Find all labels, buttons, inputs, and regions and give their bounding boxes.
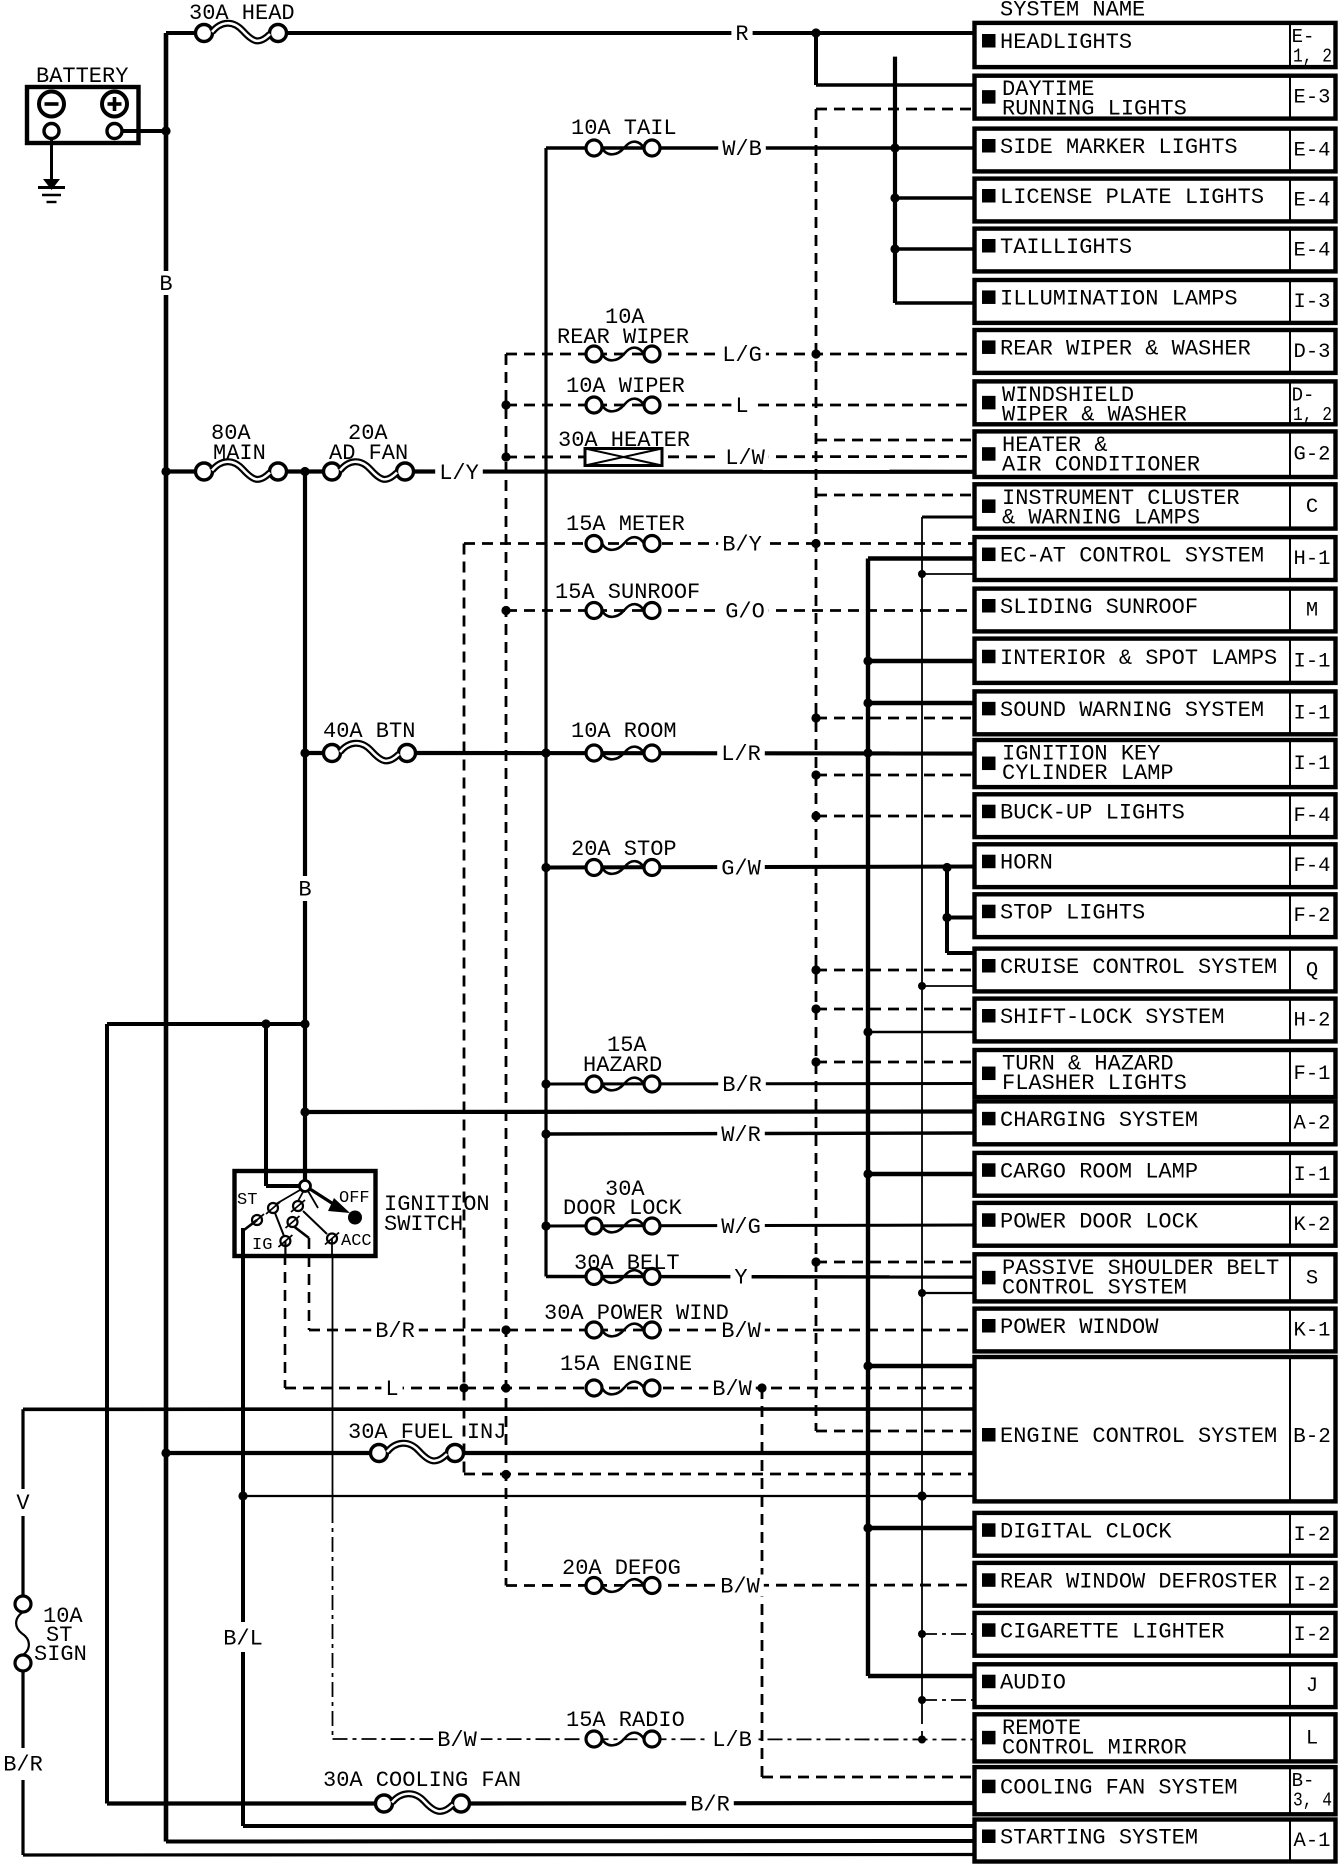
svg-text:15A METER: 15A METER bbox=[566, 512, 685, 537]
svg-text:15A RADIO: 15A RADIO bbox=[566, 1708, 685, 1733]
svg-text:HAZARD: HAZARD bbox=[583, 1053, 662, 1078]
svg-text:ENGINE CONTROL SYSTEM: ENGINE CONTROL SYSTEM bbox=[1000, 1424, 1277, 1449]
svg-text:SLIDING SUNROOF: SLIDING SUNROOF bbox=[1000, 595, 1198, 620]
svg-text:B/W: B/W bbox=[720, 1575, 760, 1600]
svg-text:SWITCH: SWITCH bbox=[384, 1212, 463, 1237]
svg-text:CIGARETTE LIGHTER: CIGARETTE LIGHTER bbox=[1000, 1619, 1224, 1644]
svg-text:E-3: E-3 bbox=[1294, 87, 1331, 110]
svg-text:L/B: L/B bbox=[712, 1728, 752, 1753]
svg-text:A-1: A-1 bbox=[1294, 1830, 1331, 1853]
svg-text:B: B bbox=[298, 878, 311, 903]
svg-text:L: L bbox=[735, 394, 748, 419]
svg-text:30A HEAD: 30A HEAD bbox=[189, 1, 295, 26]
svg-text:K-1: K-1 bbox=[1294, 1320, 1331, 1343]
svg-text:B/W: B/W bbox=[437, 1728, 477, 1753]
svg-text:L/G: L/G bbox=[722, 343, 762, 368]
svg-text:1, 2: 1, 2 bbox=[1293, 404, 1332, 426]
svg-text:W/B: W/B bbox=[722, 137, 762, 162]
svg-text:CRUISE CONTROL SYSTEM: CRUISE CONTROL SYSTEM bbox=[1000, 955, 1277, 980]
svg-text:ST: ST bbox=[237, 1191, 257, 1210]
svg-text:DOOR LOCK: DOOR LOCK bbox=[563, 1196, 683, 1221]
svg-text:& WARNING LAMPS: & WARNING LAMPS bbox=[1002, 505, 1200, 530]
svg-text:D-3: D-3 bbox=[1294, 341, 1331, 364]
svg-text:15A SUNROOF: 15A SUNROOF bbox=[555, 580, 700, 605]
svg-text:HORN: HORN bbox=[1000, 851, 1053, 876]
svg-text:CARGO ROOM LAMP: CARGO ROOM LAMP bbox=[1000, 1159, 1198, 1184]
svg-text:POWER DOOR LOCK: POWER DOOR LOCK bbox=[1000, 1209, 1199, 1234]
svg-text:E-4: E-4 bbox=[1294, 140, 1331, 163]
svg-text:SOUND WARNING SYSTEM: SOUND WARNING SYSTEM bbox=[1000, 698, 1264, 723]
svg-text:REAR WINDOW DEFROSTER: REAR WINDOW DEFROSTER bbox=[1000, 1569, 1277, 1594]
svg-text:20A DEFOG: 20A DEFOG bbox=[562, 1556, 681, 1581]
svg-text:E-4: E-4 bbox=[1294, 190, 1331, 213]
svg-text:SYSTEM NAME: SYSTEM NAME bbox=[1000, 0, 1145, 23]
svg-text:H-1: H-1 bbox=[1294, 548, 1331, 571]
svg-text:C: C bbox=[1306, 496, 1318, 519]
svg-text:I-3: I-3 bbox=[1294, 291, 1331, 314]
svg-text:CONTROL MIRROR: CONTROL MIRROR bbox=[1002, 1735, 1187, 1760]
svg-text:30A COOLING FAN: 30A COOLING FAN bbox=[323, 1768, 521, 1793]
svg-text:Q: Q bbox=[1306, 960, 1318, 983]
svg-text:40A BTN: 40A BTN bbox=[323, 719, 415, 744]
svg-text:B/L: B/L bbox=[223, 1627, 263, 1652]
svg-text:OFF: OFF bbox=[339, 1189, 370, 1208]
svg-text:30A FUEL INJ: 30A FUEL INJ bbox=[348, 1420, 506, 1445]
svg-text:30A BELT: 30A BELT bbox=[574, 1251, 680, 1276]
svg-text:1, 2: 1, 2 bbox=[1293, 45, 1332, 67]
svg-text:COOLING FAN SYSTEM: COOLING FAN SYSTEM bbox=[1000, 1776, 1238, 1801]
svg-text:AIR CONDITIONER: AIR CONDITIONER bbox=[1002, 452, 1200, 477]
svg-text:DIGITAL CLOCK: DIGITAL CLOCK bbox=[1000, 1519, 1172, 1544]
svg-text:RUNNING LIGHTS: RUNNING LIGHTS bbox=[1002, 97, 1187, 122]
svg-text:10A ROOM: 10A ROOM bbox=[571, 719, 677, 744]
svg-text:I-1: I-1 bbox=[1294, 702, 1331, 725]
svg-text:10A TAIL: 10A TAIL bbox=[571, 116, 677, 141]
svg-text:I-1: I-1 bbox=[1294, 650, 1331, 673]
svg-text:REAR WIPER: REAR WIPER bbox=[557, 325, 689, 350]
svg-text:B/Y: B/Y bbox=[722, 533, 762, 558]
svg-text:L/W: L/W bbox=[725, 446, 765, 471]
svg-text:B: B bbox=[159, 272, 172, 297]
svg-text:R: R bbox=[735, 22, 748, 47]
svg-text:20A STOP: 20A STOP bbox=[571, 837, 677, 862]
svg-text:I-1: I-1 bbox=[1294, 753, 1331, 776]
svg-text:L/R: L/R bbox=[721, 742, 761, 767]
svg-text:30A HEATER: 30A HEATER bbox=[558, 428, 690, 453]
svg-text:REAR WIPER & WASHER: REAR WIPER & WASHER bbox=[1000, 336, 1251, 361]
svg-text:TAILLIGHTS: TAILLIGHTS bbox=[1000, 235, 1132, 260]
svg-text:B/R: B/R bbox=[3, 1753, 43, 1778]
svg-text:A-2: A-2 bbox=[1294, 1112, 1331, 1135]
svg-text:MAIN: MAIN bbox=[213, 441, 266, 466]
svg-text:CONTROL SYSTEM: CONTROL SYSTEM bbox=[1002, 1275, 1187, 1300]
svg-text:HEADLIGHTS: HEADLIGHTS bbox=[1000, 30, 1132, 55]
svg-text:SHIFT-LOCK SYSTEM: SHIFT-LOCK SYSTEM bbox=[1000, 1005, 1224, 1030]
svg-text:AD FAN: AD FAN bbox=[329, 441, 408, 466]
svg-text:10A WIPER: 10A WIPER bbox=[566, 374, 685, 399]
svg-text:CHARGING SYSTEM: CHARGING SYSTEM bbox=[1000, 1108, 1198, 1133]
svg-text:S: S bbox=[1306, 1267, 1318, 1290]
svg-text:ACC: ACC bbox=[341, 1232, 372, 1251]
svg-text:Y: Y bbox=[734, 1266, 747, 1291]
svg-text:INTERIOR & SPOT LAMPS: INTERIOR & SPOT LAMPS bbox=[1000, 646, 1277, 671]
svg-text:W/R: W/R bbox=[721, 1123, 761, 1148]
svg-text:F-4: F-4 bbox=[1294, 805, 1331, 828]
svg-text:E-4: E-4 bbox=[1294, 240, 1331, 263]
svg-text:J: J bbox=[1306, 1675, 1318, 1698]
svg-text:F-2: F-2 bbox=[1294, 905, 1331, 928]
svg-text:STOP LIGHTS: STOP LIGHTS bbox=[1000, 901, 1145, 926]
svg-text:LICENSE PLATE LIGHTS: LICENSE PLATE LIGHTS bbox=[1000, 185, 1264, 210]
svg-text:POWER WINDOW: POWER WINDOW bbox=[1000, 1315, 1159, 1340]
svg-text:L: L bbox=[385, 1377, 398, 1402]
svg-text:B/R: B/R bbox=[722, 1073, 762, 1098]
svg-text:W/G: W/G bbox=[721, 1215, 761, 1240]
svg-text:STARTING SYSTEM: STARTING SYSTEM bbox=[1000, 1826, 1198, 1851]
svg-text:SIGN: SIGN bbox=[34, 1642, 87, 1667]
svg-text:H-2: H-2 bbox=[1294, 1010, 1331, 1033]
svg-text:G-2: G-2 bbox=[1294, 444, 1331, 467]
svg-text:I-2: I-2 bbox=[1294, 1524, 1331, 1547]
svg-text:B/W: B/W bbox=[712, 1377, 752, 1402]
svg-text:15A ENGINE: 15A ENGINE bbox=[560, 1352, 692, 1377]
svg-text:I-2: I-2 bbox=[1294, 1624, 1331, 1647]
svg-text:CYLINDER LAMP: CYLINDER LAMP bbox=[1002, 761, 1174, 786]
svg-text:SIDE MARKER LIGHTS: SIDE MARKER LIGHTS bbox=[1000, 135, 1238, 160]
svg-text:ILLUMINATION LAMPS: ILLUMINATION LAMPS bbox=[1000, 286, 1238, 311]
svg-text:BUCK-UP LIGHTS: BUCK-UP LIGHTS bbox=[1000, 801, 1185, 826]
svg-text:WIPER & WASHER: WIPER & WASHER bbox=[1002, 402, 1187, 427]
svg-text:B/R: B/R bbox=[375, 1319, 415, 1344]
svg-text:B/R: B/R bbox=[690, 1793, 730, 1818]
svg-text:L: L bbox=[1306, 1727, 1318, 1750]
svg-text:V: V bbox=[16, 1491, 30, 1516]
svg-text:AUDIO: AUDIO bbox=[1000, 1671, 1066, 1696]
svg-text:K-2: K-2 bbox=[1294, 1214, 1331, 1237]
svg-text:G/W: G/W bbox=[721, 857, 761, 882]
svg-text:IG: IG bbox=[252, 1236, 272, 1255]
svg-text:30A POWER WIND: 30A POWER WIND bbox=[544, 1301, 729, 1326]
svg-text:F-4: F-4 bbox=[1294, 855, 1331, 878]
svg-text:F-1: F-1 bbox=[1294, 1063, 1331, 1086]
svg-text:I-2: I-2 bbox=[1294, 1574, 1331, 1597]
svg-text:B-2: B-2 bbox=[1293, 1426, 1331, 1449]
svg-text:EC-AT CONTROL SYSTEM: EC-AT CONTROL SYSTEM bbox=[1000, 544, 1264, 569]
svg-text:I-1: I-1 bbox=[1294, 1164, 1331, 1187]
svg-text:L/Y: L/Y bbox=[439, 461, 479, 486]
svg-text:M: M bbox=[1306, 600, 1318, 623]
svg-text:FLASHER LIGHTS: FLASHER LIGHTS bbox=[1002, 1071, 1187, 1096]
svg-text:G/O: G/O bbox=[725, 600, 765, 625]
svg-text:3, 4: 3, 4 bbox=[1293, 1790, 1332, 1812]
